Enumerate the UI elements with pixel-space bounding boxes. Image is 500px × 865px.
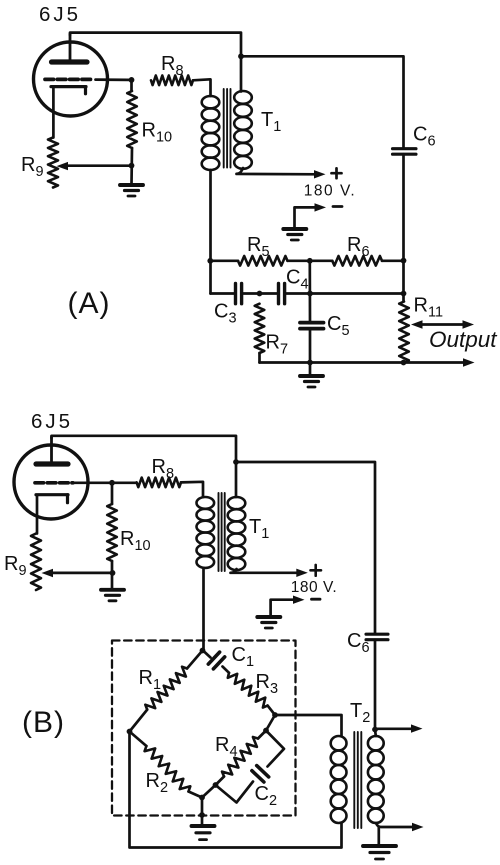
- node: R5/R6/C4-branch junction (section A): [307, 258, 313, 264]
- wire C6 down to T2/output node (section B): [374, 640, 377, 730]
- node: plate/top-rail junction (section B): [233, 459, 239, 465]
- node: R6/right-rail junction (section A): [401, 258, 407, 264]
- ground of bridge (section B): [192, 824, 215, 828]
- svg-text:C3: C3: [214, 301, 237, 327]
- svg-text:R8: R8: [161, 53, 184, 79]
- node: R4/C2 bottom junction (section B): [213, 782, 219, 788]
- resistor R2 bridge arm (section B): [130, 732, 147, 747]
- wire V1 plate to T1 primary top and C6 branch (section A): [70, 33, 241, 92]
- resistor R3 bridge arm (section B): [228, 673, 268, 708]
- svg-text:R4: R4: [215, 734, 238, 760]
- label + (section A supply): [332, 168, 342, 178]
- capacitor C2 parallel branch (section B): [266, 731, 284, 767]
- wire T1 secondary bottom to +180V arrow (section B): [231, 569, 303, 573]
- resistor R6 (section A): [332, 256, 382, 266]
- label - (section A supply): [333, 205, 342, 208]
- wire bridge right node to T2 primary top (section B): [275, 715, 342, 736]
- wire V2 cathode to R9 (section B): [36, 495, 39, 534]
- capacitor C5 (section A): [300, 323, 324, 329]
- capacitor C1 bridge arm (section B): [204, 651, 211, 658]
- wire R8 to T1 primary (section A): [193, 79, 211, 96]
- ground under R10 (section A): [120, 183, 143, 187]
- wire top rail to C6 (section B): [236, 462, 375, 634]
- svg-text:R10: R10: [142, 120, 173, 146]
- wire V2 plate to T1 secondary top and C6 branch (section B): [52, 436, 237, 497]
- resistor R4 bridge arm (section B): [258, 731, 266, 739]
- svg-text:C2: C2: [255, 783, 278, 809]
- svg-text:C5: C5: [327, 313, 350, 339]
- svg-text:T1: T1: [249, 516, 269, 542]
- transformer T1 primary coil (section B): [197, 497, 215, 568]
- T2 output arrow bottom (section B): [376, 823, 417, 827]
- wire T1 secondary bottom to +180V arrow (section A): [237, 168, 320, 174]
- svg-text:R7: R7: [266, 332, 289, 358]
- ground of 180V supply (section B): [257, 615, 280, 619]
- node: C5/bottom-wire junction (section A): [307, 360, 313, 366]
- svg-text:Output: Output: [429, 327, 498, 352]
- node: C6/T2 secondary/output junction (section B): [374, 730, 377, 737]
- ground under R10 (section B): [101, 588, 124, 592]
- ground under T2 (section B): [363, 844, 396, 848]
- triode V2 6J5 envelope (section B): [14, 445, 88, 519]
- resistor R10 (section B): [111, 483, 114, 504]
- resistor R5 (section A): [211, 259, 239, 262]
- ground under C5 (section A): [309, 363, 312, 376]
- svg-text:C4: C4: [286, 267, 309, 293]
- V2 cathode (section B): [36, 493, 68, 496]
- dashed enclosure box around bridge (section B): [112, 641, 296, 816]
- potentiometer R11 (section A): [399, 302, 409, 363]
- capacitor C6 (section B): [366, 634, 388, 640]
- wire bridge bottom node to ground (section B): [201, 798, 204, 826]
- wire right node to R4/C2 junction (section B): [266, 715, 275, 731]
- wire -180V return with arrow (section B): [271, 600, 299, 615]
- transformer T1 primary coil (section A): [202, 96, 220, 170]
- node: bridge top node (section B): [200, 648, 206, 654]
- V2 grid dashed line (section B): [35, 481, 73, 485]
- wire T1 primary bottom down to R5/C3 (section A): [209, 170, 212, 294]
- transformer T1 secondary coil (section B): [228, 497, 246, 570]
- wire C6 to R6/R11 right rail (section A): [402, 154, 405, 293]
- transformer T1 secondary coil (section A): [234, 91, 252, 169]
- svg-text:T2: T2: [350, 700, 370, 726]
- transformer T2 core (section B): [354, 732, 361, 828]
- node: C4/C5 junction (section A): [307, 291, 313, 297]
- wire R4 junction to bridge bottom node (section B): [202, 785, 216, 798]
- wire T1 primary bottom to bridge top node (section B): [202, 568, 205, 651]
- wire top rail to C6 (section A): [241, 56, 404, 148]
- node: bridge left node (section B): [127, 729, 133, 735]
- potentiometer R9 (section B): [31, 534, 41, 591]
- svg-text:(B): (B): [22, 706, 65, 739]
- svg-text:R5: R5: [247, 234, 270, 260]
- capacitor C6 (section A): [393, 149, 417, 155]
- transformer T1 core (section A): [224, 89, 231, 168]
- T2 output arrow top (section B): [375, 727, 416, 730]
- svg-text:180 V.: 180 V.: [291, 579, 337, 596]
- node: R10/R9-wiper junction (section B): [110, 570, 116, 576]
- resistor R8 (section B): [137, 478, 181, 488]
- triode V1 6J5 envelope (section A): [34, 42, 108, 116]
- transformer T2 primary coil (section B): [331, 736, 347, 823]
- node: bridge right node (section B): [272, 712, 278, 718]
- node: plate/top-rail junction (section A): [238, 53, 244, 59]
- resistor R8 (section A): [151, 76, 193, 86]
- V1 plate (section A): [69, 34, 72, 61]
- svg-text:R6: R6: [347, 234, 370, 260]
- node: R11 top junction (section A): [401, 291, 407, 297]
- wire -180V return with arrow (section A): [295, 207, 321, 227]
- resistor R10 (section A): [130, 80, 133, 91]
- wire T2 secondary bottom to ground (section B): [377, 827, 380, 845]
- R9 wiper arrow wire (section B): [52, 572, 113, 575]
- node: R10/R9-wiper junction (section A): [129, 163, 135, 169]
- capacitor C4 (section A): [260, 292, 277, 295]
- resistor R1 bridge arm (section B): [187, 651, 203, 669]
- svg-text:C6: C6: [413, 124, 436, 150]
- svg-text:R1: R1: [139, 667, 162, 693]
- node: R4/C2 top junction (section B): [263, 728, 269, 734]
- potentiometer R9 (section A): [48, 138, 58, 188]
- node: T1/R5 junction (section A): [207, 258, 213, 264]
- node: grid/R10/R8 junction (section A): [129, 77, 135, 83]
- resistor R7 (section A): [255, 304, 265, 353]
- svg-text:180 V.: 180 V.: [304, 183, 356, 200]
- svg-text:R9: R9: [4, 553, 27, 579]
- svg-text:C1: C1: [232, 644, 255, 670]
- svg-text:6J5: 6J5: [39, 3, 81, 26]
- wire V1 cathode to R9 (section A): [52, 87, 55, 138]
- svg-text:R11: R11: [414, 295, 444, 321]
- svg-text:R10: R10: [120, 528, 151, 554]
- node: bridge bottom node (section B): [199, 795, 205, 801]
- node: C3/C4/R7 junction (section A): [257, 291, 263, 297]
- svg-text:(A): (A): [68, 287, 111, 320]
- svg-text:R9: R9: [21, 154, 44, 180]
- R11 wiper output arrow (section A): [421, 323, 464, 326]
- V1 grid lead wire to R10/R8 node (section A): [96, 78, 132, 81]
- transformer T2 secondary coil (section B): [368, 736, 384, 823]
- V2 plate (section B): [50, 437, 53, 463]
- label + (section B supply): [311, 565, 322, 576]
- label - (section B supply): [312, 598, 321, 601]
- capacitor C3 (section A): [211, 292, 234, 295]
- wire C4 node to R11 top (section A): [310, 292, 404, 295]
- wire bridge left node to T2 primary bottom (section B): [130, 732, 342, 848]
- V2 grid lead wire (section B): [74, 481, 112, 484]
- transformer T1 core (section B): [219, 493, 225, 571]
- V1 cathode (section A): [51, 85, 86, 88]
- node: grid/R10/R8 junction (section B): [109, 480, 115, 486]
- R9 wiper arrow wire (section A): [67, 164, 132, 167]
- V1 grid dashed line (section A): [45, 78, 94, 82]
- wire R8 to T1 primary (section B): [181, 482, 203, 497]
- svg-text:6J5: 6J5: [31, 410, 73, 433]
- wire R5-R6 node down to C5 (section A): [308, 261, 311, 323]
- ground of 180V supply (section A): [283, 227, 306, 231]
- node: R11/bottom-wire junction (section A): [401, 360, 407, 366]
- node: dashed-box crossing dot (section B): [199, 812, 205, 818]
- bottom output wire R7/C5/R11 (section A): [260, 361, 467, 364]
- svg-text:T1: T1: [261, 109, 281, 135]
